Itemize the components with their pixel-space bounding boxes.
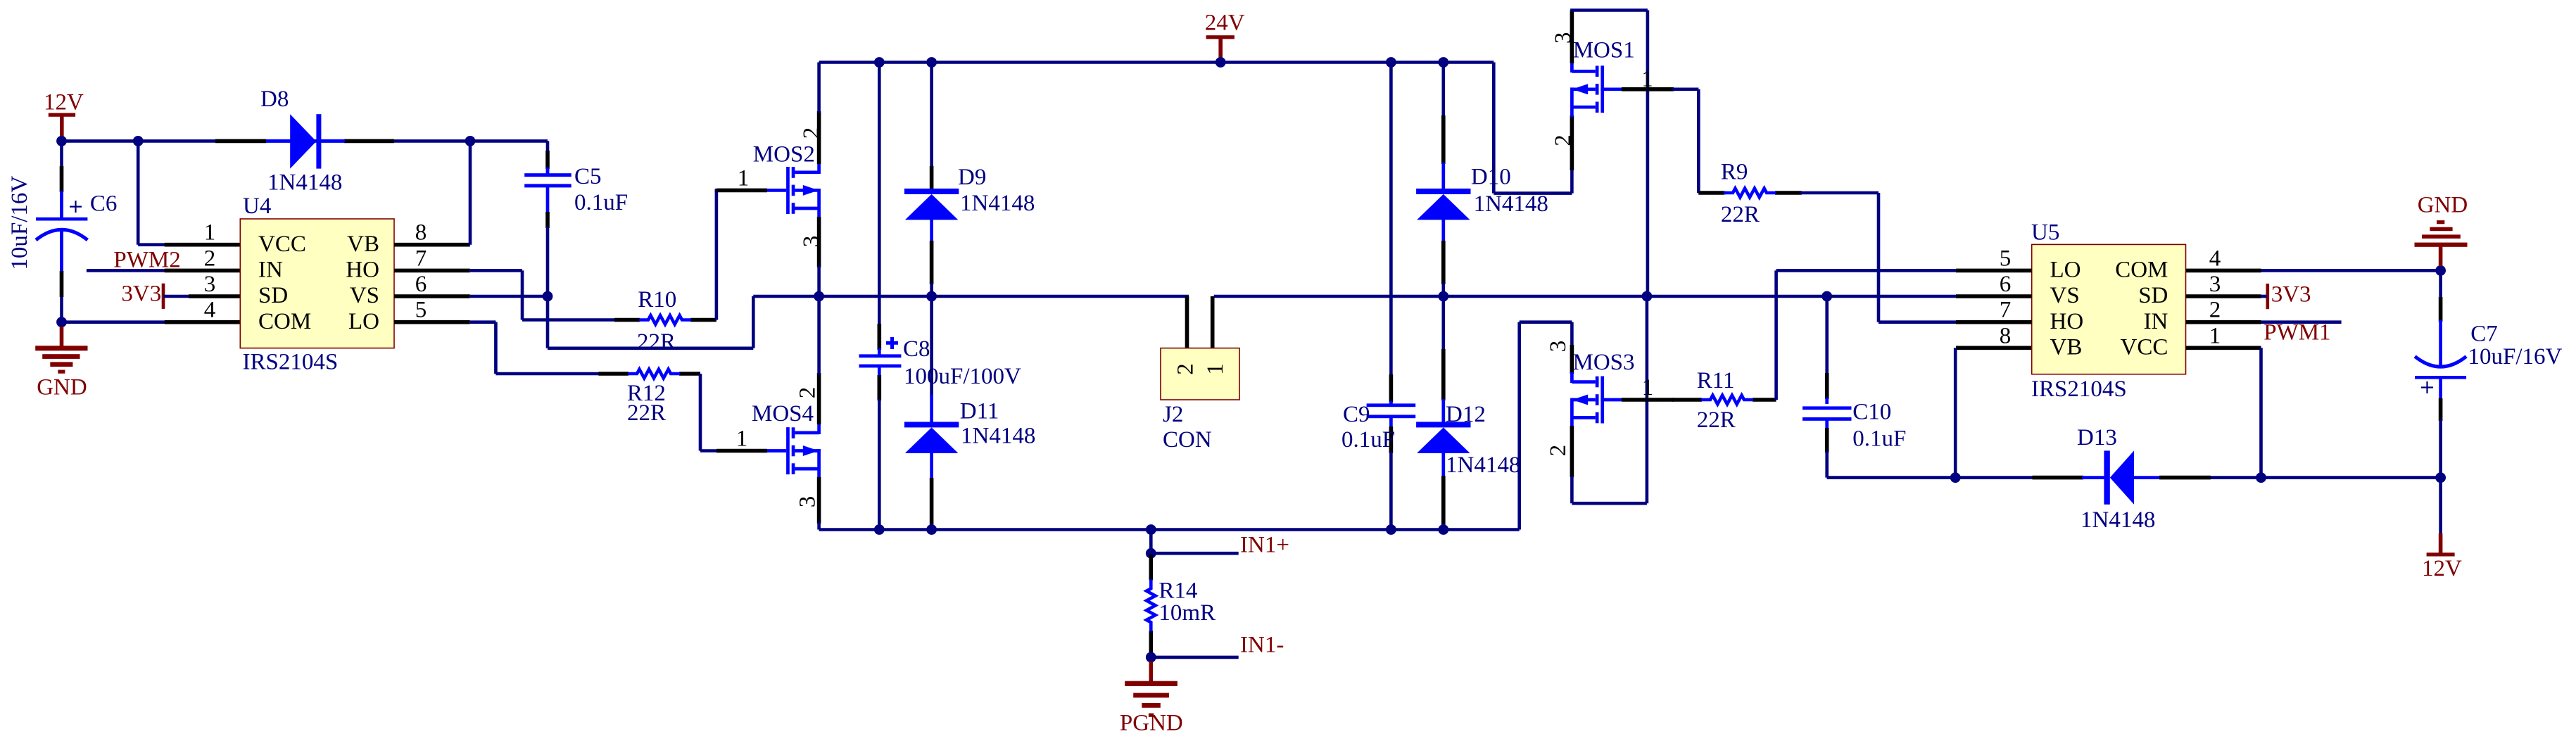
svg-text:1: 1 (2209, 323, 2221, 348)
pin 3 of MOS3 (1546, 341, 1572, 374)
wire MOS2 source to phase (817, 266, 821, 296)
svg-text:HO: HO (2050, 309, 2084, 334)
svg-text:7: 7 (2000, 298, 2012, 323)
capacitor C9 leads (1389, 63, 1393, 530)
svg-text:D11: D11 (960, 399, 999, 424)
pin 4 of U4 (165, 298, 241, 323)
svg-text:PGND: PGND (1120, 711, 1183, 736)
svg-text:4: 4 (2209, 246, 2221, 271)
svg-text:3V3: 3V3 (2271, 282, 2311, 307)
pin 2 of MOS2 (799, 111, 824, 164)
wire IN1- (1151, 656, 1238, 659)
svg-text:PWM1: PWM1 (2264, 320, 2330, 345)
svg-text:10mR: 10mR (1158, 600, 1216, 626)
svg-text:7: 7 (415, 246, 427, 271)
svg-text:D9: D9 (958, 165, 986, 190)
svg-text:IRS2104S: IRS2104S (2031, 377, 2127, 402)
wire GND to pin 4 (62, 320, 167, 324)
svg-text:12V: 12V (2422, 556, 2462, 581)
wire 12V rail from 12V post to C5 corner (62, 141, 548, 175)
wire MOS1 drain loop (1570, 11, 1648, 297)
wire VCC riser of U5 (2259, 348, 2263, 477)
junction VCC riser (133, 136, 144, 146)
pin 3 of MOS4 (795, 477, 821, 524)
svg-text:2: 2 (2209, 298, 2221, 323)
svg-text:MOS4: MOS4 (752, 401, 814, 426)
svg-text:MOS3: MOS3 (1573, 350, 1635, 375)
wire MOS4 drain to phase (817, 296, 821, 374)
svg-text:100uF/100V: 100uF/100V (904, 364, 1021, 389)
svg-text:1N4148: 1N4148 (960, 191, 1035, 216)
wire R9 to HO of U5 (1800, 193, 1957, 322)
wire VS to junction (470, 295, 548, 298)
wire PWM2 to pin 2 (87, 269, 166, 272)
power symbol 12V (bottom right) (2422, 478, 2462, 582)
junction D11 bottom (926, 524, 937, 535)
svg-text:U4: U4 (243, 194, 271, 219)
pin 1 of U5 (2186, 323, 2261, 348)
svg-text:SD: SD (2138, 283, 2168, 308)
svg-text:3: 3 (799, 236, 824, 248)
svg-text:1N4148: 1N4148 (961, 424, 1035, 449)
IC U4 body (240, 219, 394, 348)
junction C9 bottom (1386, 524, 1396, 535)
junction C8 bottom (874, 524, 885, 535)
svg-text:VS: VS (350, 283, 379, 308)
svg-text:10uF/16V: 10uF/16V (2468, 344, 2563, 369)
junction GND-C7 (2435, 265, 2446, 276)
svg-text:2: 2 (204, 246, 216, 271)
svg-text:C7: C7 (2470, 322, 2498, 347)
transistor MOS2 symbol (767, 163, 819, 218)
svg-text:IN: IN (2144, 309, 2168, 334)
svg-text:3: 3 (204, 272, 216, 297)
svg-text:0.1uF: 0.1uF (1852, 426, 1906, 451)
wire MOS1 gate to R9 (1672, 89, 1726, 193)
capacitor C8 leads (878, 63, 881, 530)
svg-text:3: 3 (1546, 341, 1571, 353)
pin 2 of MOS1 (1551, 115, 1576, 170)
svg-text:3V3: 3V3 (121, 281, 161, 306)
svg-text:5: 5 (2000, 246, 2012, 271)
svg-text:10uF/16V: 10uF/16V (7, 176, 32, 270)
junction D9 top (926, 57, 937, 68)
wire R12 to MOS4 gate (700, 374, 718, 451)
pin 8 of U4 (394, 220, 470, 246)
pin 2 of MOS3 (1546, 426, 1572, 477)
capacitor C10 leads (1827, 296, 1829, 478)
ground symbol GND (left) (35, 327, 87, 400)
junction C8 top (874, 57, 885, 68)
pin 8 of U5 (1956, 323, 2032, 348)
junction VS-C5-phase (543, 291, 553, 302)
pin 3 of U4 (189, 272, 240, 297)
svg-text:J2: J2 (1163, 402, 1183, 427)
capacitor C6 leads (60, 141, 63, 322)
transistor MOS1 symbol (1572, 62, 1623, 117)
svg-text:C9: C9 (1343, 402, 1370, 427)
wire 3V3 to pin 3 (163, 295, 191, 298)
svg-text:0.1uF: 0.1uF (574, 190, 628, 215)
resistor R14 top junction (1146, 524, 1156, 535)
capacitor C6 symbol (36, 201, 87, 240)
svg-text:MOS1: MOS1 (1573, 37, 1635, 63)
power symbol 3V3 (right) (2266, 282, 2311, 309)
svg-text:1: 1 (736, 426, 748, 452)
svg-text:3: 3 (1551, 32, 1576, 44)
wire to IN1+ tap (1149, 530, 1153, 554)
wire MOS4 source to bottom rail (817, 522, 821, 530)
svg-text:24V: 24V (1205, 10, 1245, 35)
junction 24V post (1216, 57, 1226, 68)
wire phase B rail (1214, 295, 1956, 298)
transistor MOS3 symbol (1572, 372, 1623, 427)
svg-text:2: 2 (1546, 445, 1571, 457)
wire IN1+ (1151, 552, 1238, 555)
diode D8 symbol (290, 114, 321, 168)
diode D12 leads (1442, 296, 1446, 530)
svg-text:12V: 12V (44, 89, 84, 115)
junction MOS1-MOS3-phase (1642, 291, 1653, 302)
junction VCC-D13 line (2256, 472, 2266, 483)
svg-text:1N4148: 1N4148 (2081, 507, 2155, 533)
svg-text:GND: GND (37, 374, 87, 400)
junction D12 bottom (1438, 524, 1448, 535)
diode D11 symbol (904, 422, 959, 427)
resistor R11 symbol (1701, 396, 1753, 405)
ground symbol GND (right) (2415, 192, 2468, 266)
wire R10 to MOS2 gate (715, 190, 718, 320)
power symbol 12V (top left) (44, 89, 84, 141)
pin 5 of U4 (394, 298, 470, 323)
pin 3 of MOS2 (799, 217, 824, 267)
wire MOS2 drain to 24V rail (817, 63, 821, 113)
capacitor C10 symbol (1802, 406, 1852, 420)
svg-text:C5: C5 (574, 164, 602, 189)
svg-text:C10: C10 (1852, 399, 1891, 424)
svg-text:3: 3 (795, 496, 821, 508)
svg-text:5: 5 (415, 298, 427, 323)
svg-text:6: 6 (415, 272, 427, 297)
junction IN1+ tap (1146, 548, 1156, 559)
svg-text:IN1-: IN1- (1240, 632, 1284, 657)
junction VB-C10 (1950, 472, 1961, 483)
svg-text:LO: LO (2050, 258, 2081, 283)
svg-text:CON: CON (1163, 427, 1212, 453)
svg-text:IN1+: IN1+ (1240, 532, 1289, 557)
capacitor C9 symbol (1367, 403, 1416, 418)
svg-text:U5: U5 (2031, 220, 2059, 246)
resistor R10 leads (614, 318, 716, 322)
svg-text:2: 2 (799, 127, 824, 139)
resistor R14 leads (1149, 555, 1154, 657)
ground symbol PGND (1120, 662, 1183, 736)
svg-text:1N4148: 1N4148 (1446, 453, 1520, 478)
wire 24V to MOS1 source (1494, 63, 1572, 194)
diode D9 symbol (904, 189, 959, 194)
svg-text:D10: D10 (1471, 165, 1511, 190)
junction D9-D11-phase (926, 291, 937, 302)
pin 6 of U5 (1956, 272, 2032, 297)
wire 24V rail (819, 61, 1494, 64)
wire IN to PWM1 (2261, 320, 2342, 324)
svg-text:22R: 22R (637, 329, 676, 355)
svg-text:MOS2: MOS2 (753, 141, 815, 167)
resistor R12 leads (598, 372, 700, 376)
resistor R11 leads (1672, 398, 1776, 402)
diode D13 symbol (2104, 450, 2134, 504)
diode D12 symbol (1416, 422, 1470, 427)
wire VCC riser to pin 1 (138, 141, 166, 244)
wire COM to GND (2261, 269, 2441, 272)
junction MOS2-MOS4-phase (814, 291, 824, 302)
svg-text:3: 3 (2209, 272, 2221, 297)
pin 6 of U4 (394, 272, 470, 297)
junction at 12V post (56, 136, 67, 146)
power symbol 24V (1205, 10, 1245, 62)
svg-text:VCC: VCC (2121, 334, 2168, 360)
wire MOS3 drain loop (1520, 322, 1572, 530)
pin 2 of MOS4 (795, 373, 821, 424)
capacitor C5 leads (545, 151, 550, 296)
svg-text:COM: COM (2115, 258, 2168, 283)
wire VB riser of U5 (1954, 348, 1957, 477)
svg-text:22R: 22R (1697, 407, 1736, 433)
svg-text:COM: COM (258, 309, 311, 334)
svg-text:R9: R9 (1721, 160, 1748, 185)
connector J2 pin 2 (1185, 296, 1189, 348)
diode D8 pins (215, 139, 394, 144)
capacitor C5 symbol (524, 173, 572, 187)
svg-text:VCC: VCC (258, 232, 306, 257)
pin 3 of U5 (2186, 272, 2261, 297)
junction D10 top (1438, 57, 1448, 68)
wire phase A jog (548, 296, 1189, 348)
svg-text:SD: SD (258, 283, 288, 308)
junction VB riser (465, 136, 476, 146)
pin 1 of MOS3 (1622, 375, 1674, 400)
capacitor C7 symbol (2415, 356, 2466, 393)
svg-text:LO: LO (348, 309, 379, 334)
svg-text:D13: D13 (2077, 425, 2117, 450)
junction D10-D12-phase (1438, 291, 1448, 302)
svg-text:6: 6 (2000, 272, 2012, 297)
junction C10 top (1821, 291, 1832, 302)
pin 3 of MOS1 (1551, 11, 1576, 64)
svg-text:GND: GND (2418, 192, 2468, 217)
svg-text:C6: C6 (90, 191, 118, 217)
pin 5 of U5 (1956, 246, 2032, 271)
transistor MOS4 symbol (767, 424, 819, 479)
svg-text:2: 2 (1551, 134, 1576, 146)
wire bootstrap 12V line (1827, 476, 2441, 479)
svg-text:HO: HO (346, 258, 379, 283)
resistor R9 symbol (1724, 189, 1776, 198)
wire VB pin8 riser (469, 141, 471, 244)
svg-text:IRS2104S: IRS2104S (243, 349, 339, 374)
pin 7 of U4 (394, 246, 470, 271)
svg-text:2: 2 (795, 387, 821, 399)
svg-text:R11: R11 (1697, 368, 1735, 393)
svg-text:1N4148: 1N4148 (267, 170, 342, 195)
svg-text:1: 1 (204, 220, 216, 246)
wire R11 to LO of U5 (1776, 270, 1957, 400)
resistor R12 symbol (628, 369, 680, 379)
capacitor C8 symbol (859, 337, 902, 367)
IC U5 body (2032, 244, 2186, 374)
resistor R14 symbol (1147, 579, 1156, 631)
capacitor C7 leads (2439, 270, 2442, 477)
svg-text:IN: IN (258, 258, 283, 283)
svg-text:2: 2 (1173, 363, 1199, 375)
svg-text:VB: VB (347, 232, 379, 257)
svg-text:0.1uF: 0.1uF (1341, 427, 1395, 453)
connector J2 pin 1 (1211, 296, 1215, 348)
svg-text:VS: VS (2050, 283, 2080, 308)
svg-text:D8: D8 (260, 87, 289, 112)
svg-text:1: 1 (1203, 363, 1228, 375)
pin 1 of MOS2 (716, 166, 767, 191)
svg-text:22R: 22R (627, 400, 666, 426)
pin 4 of U5 (2186, 246, 2261, 271)
svg-text:8: 8 (415, 220, 427, 246)
diode D13 leads (2033, 476, 2211, 480)
diode D10 symbol (1416, 189, 1470, 194)
pin 2 of U4 (165, 246, 241, 271)
junction IN1- tap (1146, 652, 1156, 663)
diode D9 leads (930, 63, 933, 297)
svg-text:1: 1 (1641, 66, 1653, 91)
svg-text:R10: R10 (638, 287, 676, 312)
junction COM-C6-GND (56, 317, 67, 327)
diode D11 leads (930, 296, 933, 530)
wire MOS3 source loop (1572, 296, 1647, 503)
svg-text:1: 1 (738, 166, 750, 191)
svg-text:1N4148: 1N4148 (1474, 191, 1548, 217)
pin 2 of U5 (2186, 298, 2261, 323)
resistor R10 symbol (639, 315, 691, 324)
pin 1 of MOS1 (1622, 66, 1674, 91)
junction C9 top (1386, 57, 1396, 68)
diode D10 leads (1442, 63, 1446, 297)
pin 7 of U5 (1956, 298, 2032, 323)
svg-text:C8: C8 (903, 336, 930, 362)
resistor R9 leads (1698, 191, 1802, 195)
power symbol 3V3 (left) (121, 281, 165, 309)
wire SD to 3V3 (2261, 295, 2268, 298)
connector J2 body (1161, 348, 1239, 400)
svg-text:8: 8 (2000, 323, 2012, 348)
junction C7-D13-12V (2435, 472, 2446, 483)
svg-text:1: 1 (1642, 375, 1654, 400)
svg-text:D12: D12 (1446, 402, 1486, 427)
svg-text:4: 4 (204, 298, 216, 323)
wire bottom rail (819, 528, 1520, 531)
svg-text:22R: 22R (1721, 202, 1760, 227)
svg-text:VB: VB (2050, 334, 2083, 360)
wire HO to R10 (470, 270, 616, 320)
pin 1 of U4 (165, 220, 241, 246)
pin 1 of MOS4 (716, 426, 767, 452)
wire LO to R12 (470, 322, 600, 374)
